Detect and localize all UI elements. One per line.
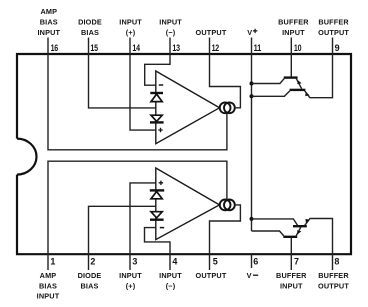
transistor Q4 base bar (bottom buffer input) [283,236,297,238]
svg-text:3: 3 [132,257,137,267]
Q1 emitter to Q2 base [296,79,301,89]
diode D1 (top amp, cathode up) [150,93,163,102]
svg-text:(−): (−) [166,282,176,291]
diode D4 (bottom amp, cathode down) [150,212,164,220]
Q2 collector wire to V+ [252,91,290,97]
wire pin 1 amp bias to A2 mirror top [48,161,227,254]
pin 7 lead [290,254,292,270]
svg-text:6: 6 [253,257,258,267]
op-amp A2 triangle (bottom amplifier) [156,168,220,240]
wire A1 mirror to pin 12 output [210,54,241,108]
svg-text:5: 5 [213,257,218,267]
svg-text:INPUT: INPUT [119,18,142,27]
svg-text:INPUT: INPUT [159,271,182,280]
pin 12 lead [209,38,211,55]
wire pin 4 to A2 inverting input [145,228,171,255]
pin 13 label INPUT (-) [159,18,182,37]
pin 10 label BUFFER INPUT [278,18,309,37]
svg-text:1: 1 [50,257,55,267]
svg-text:(−): (−) [166,28,176,37]
pin 1 lead [47,254,49,270]
svg-text:V: V [247,271,252,280]
pin 16 label AMP BIAS INPUT [37,7,60,37]
svg-text:INPUT: INPUT [159,18,182,27]
pin 4 lead [169,254,171,270]
Q3 collector wire to V+ [252,219,298,226]
pin 7 label BUFFER INPUT [276,271,307,290]
wire pin 10 to Q1 base [290,54,292,77]
pin 6 lead [251,254,253,268]
Q3 emitter wire to pin 8 buffer output [305,219,333,255]
op-amp A1 non-inverting input marker (+) [158,128,162,132]
pin 15 label DIODE BIAS [78,18,102,37]
IC package outline with pin-1 notch [17,54,351,254]
svg-text:4: 4 [172,257,177,267]
diode D2 (top amp, cathode down) [150,115,164,122]
svg-text:11: 11 [254,43,262,53]
svg-text:BIAS: BIAS [81,28,99,37]
wire pin 15 to D1/D2 common anodes [89,54,157,108]
pin 8 lead [332,254,334,270]
pin 2 lead [88,254,90,270]
svg-text:15: 15 [90,43,98,53]
op-amp A1 triangle (top amplifier) [156,71,220,144]
svg-text:INPUT: INPUT [119,271,142,280]
svg-text:DIODE: DIODE [78,18,102,27]
svg-text:(+): (+) [126,282,136,291]
V+ rail from pin 11 [251,54,253,231]
svg-text:9: 9 [335,43,340,53]
wire A2 mirror to pin 5 output [210,205,241,254]
pin 13 lead [169,38,171,55]
svg-text:BIAS: BIAS [40,18,58,27]
svg-text:OUTPUT: OUTPUT [318,282,349,291]
output mirror symbol A2 (double circle) [220,200,235,211]
svg-text:INPUT: INPUT [280,282,303,291]
svg-text:BUFFER: BUFFER [318,18,349,27]
svg-text:(+): (+) [126,28,136,37]
pin 4 label INPUT (-) [159,271,182,290]
pin 5 label OUTPUT [196,271,227,280]
junction dot V+/Q3 collector [250,217,254,221]
pin 9 label BUFFER OUTPUT [318,18,349,37]
pin 1 label AMP BIAS INPUT [37,271,60,300]
output mirror symbol A1 (double circle) [220,102,235,113]
svg-text:10: 10 [294,43,302,53]
svg-text:13: 13 [172,43,180,53]
wire pin 16 amp bias to A1 mirror bottom [48,54,227,150]
pin 11 lead [251,38,253,55]
transistor Q2 base bar [290,89,306,91]
pin 9 lead [332,38,334,55]
svg-text:INPUT: INPUT [282,28,305,37]
wire pin 7 to Q4 base [290,237,292,254]
junction dot V+/Q2 collector [250,94,254,98]
svg-text:2: 2 [90,257,95,267]
svg-text:AMP: AMP [40,7,57,16]
Q4 emitter to Q3 base [296,226,301,236]
diode D3 (bottom amp, cathode up) [150,190,164,198]
svg-text:BUFFER: BUFFER [276,271,307,280]
transistor Q1 base bar (top buffer input) [284,76,298,78]
Q4 collector wire to V+ rail [252,231,284,236]
svg-text:14: 14 [132,43,140,53]
svg-text:OUTPUT: OUTPUT [318,28,349,37]
svg-text:BUFFER: BUFFER [278,18,309,27]
svg-text:OUTPUT: OUTPUT [196,28,227,37]
op-amp A1 inverting input marker (-) [159,84,163,86]
pin 3 lead [129,254,131,270]
pin 10 lead [290,38,292,55]
wire pin 2 to D3/D4 common anodes [89,206,157,254]
pin 12 label OUTPUT [196,28,227,37]
svg-text:BIAS: BIAS [80,282,98,291]
pin 5 lead [209,254,211,270]
Q1 collector wire to V+ [252,78,285,83]
svg-text:8: 8 [334,257,339,267]
wire pin 14 to A1 non-inverting input [130,54,156,130]
svg-text:BUFFER: BUFFER [318,271,349,280]
pin 15 lead [88,38,90,55]
svg-text:7: 7 [294,257,299,267]
op-amp A2 inverting input marker (-) [160,227,164,229]
pin 3 label INPUT (+) [119,271,142,290]
Q2 emitter wire to pin 9 buffer output [305,54,333,98]
pin 14 lead [129,38,131,55]
svg-text:V: V [247,28,252,37]
op-amp A2 non-inverting input marker (+) [159,181,163,185]
svg-text:INPUT: INPUT [37,28,60,37]
pin 2 label DIODE BIAS [78,271,102,290]
pin 16 lead [47,38,49,55]
junction dot V+/Q1 collector [250,82,254,86]
pin 14 label INPUT (+) [119,18,142,37]
svg-text:16: 16 [51,43,59,53]
svg-text:12: 12 [212,43,220,53]
svg-text:AMP: AMP [40,271,57,280]
transistor Q3 base bar [293,225,307,227]
wire pin 3 to A2 non-inverting input [130,183,156,254]
wire pin 13 to A1 inverting input [145,54,170,85]
svg-text:INPUT: INPUT [37,292,60,301]
svg-text:DIODE: DIODE [78,271,102,280]
svg-text:OUTPUT: OUTPUT [196,271,227,280]
svg-text:BIAS: BIAS [39,282,57,291]
pin 8 label BUFFER OUTPUT [318,271,349,290]
